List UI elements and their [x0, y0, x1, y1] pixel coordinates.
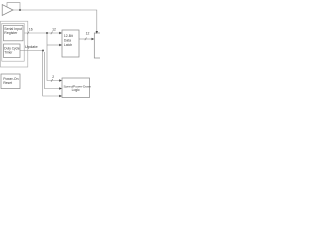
12-bit data latch box: [62, 30, 79, 57]
12-bit DAC box (clipped): [94, 33, 106, 58]
svg-text:16: 16: [29, 28, 33, 32]
svg-text:Register: Register: [4, 31, 18, 35]
node junction dot output: [19, 9, 21, 11]
op-amp buffer U1: [2, 5, 13, 16]
node junction dot bus: [46, 32, 48, 34]
serial input register box: [4, 25, 24, 41]
wire branch control bits: [47, 33, 60, 81]
svg-text:Data: Data: [64, 38, 71, 42]
svg-text:Reset: Reset: [3, 81, 12, 85]
arrowhead into logic top: [59, 79, 62, 81]
svg-text:Latch: Latch: [64, 43, 72, 47]
cycle timer box: [4, 44, 21, 58]
bus slash 2: [51, 79, 53, 82]
arrowhead into latch lower: [59, 44, 62, 46]
arrowhead into logic low: [59, 95, 62, 97]
wire reference to DAC: [20, 10, 97, 32]
svg-text:Timer: Timer: [4, 50, 13, 54]
bus slash 12b: [85, 38, 87, 41]
wire middle feeder: [44, 52, 60, 89]
wire update down to logic: [43, 51, 60, 97]
wire serial register to latch: [24, 32, 60, 34]
arrowhead into DAC: [92, 38, 95, 40]
bus slash 12: [51, 32, 53, 35]
serial interface outer box: [0, 21, 27, 67]
wire feedback loop: [7, 3, 20, 10]
svg-text:12: 12: [86, 32, 90, 36]
power-on reset box: [1, 74, 20, 89]
arrowhead into latch top: [59, 32, 62, 34]
arrowhead into DAC top: [96, 31, 98, 34]
node junction dot update: [42, 50, 44, 52]
svg-text:Update: Update: [25, 44, 39, 49]
serial interface inner box: [2, 23, 24, 61]
svg-text:2: 2: [52, 75, 54, 79]
arrowhead into logic mid: [59, 87, 62, 89]
wire latch second input: [47, 44, 60, 46]
svg-text:12-Bit: 12-Bit: [64, 34, 73, 38]
wire update: [20, 50, 43, 52]
wire latch to DAC: [79, 38, 92, 40]
speed/power-down logic box: [62, 78, 90, 98]
svg-text:12: 12: [52, 28, 56, 32]
svg-text:Logic: Logic: [72, 88, 80, 92]
bus slash 16: [27, 32, 29, 35]
